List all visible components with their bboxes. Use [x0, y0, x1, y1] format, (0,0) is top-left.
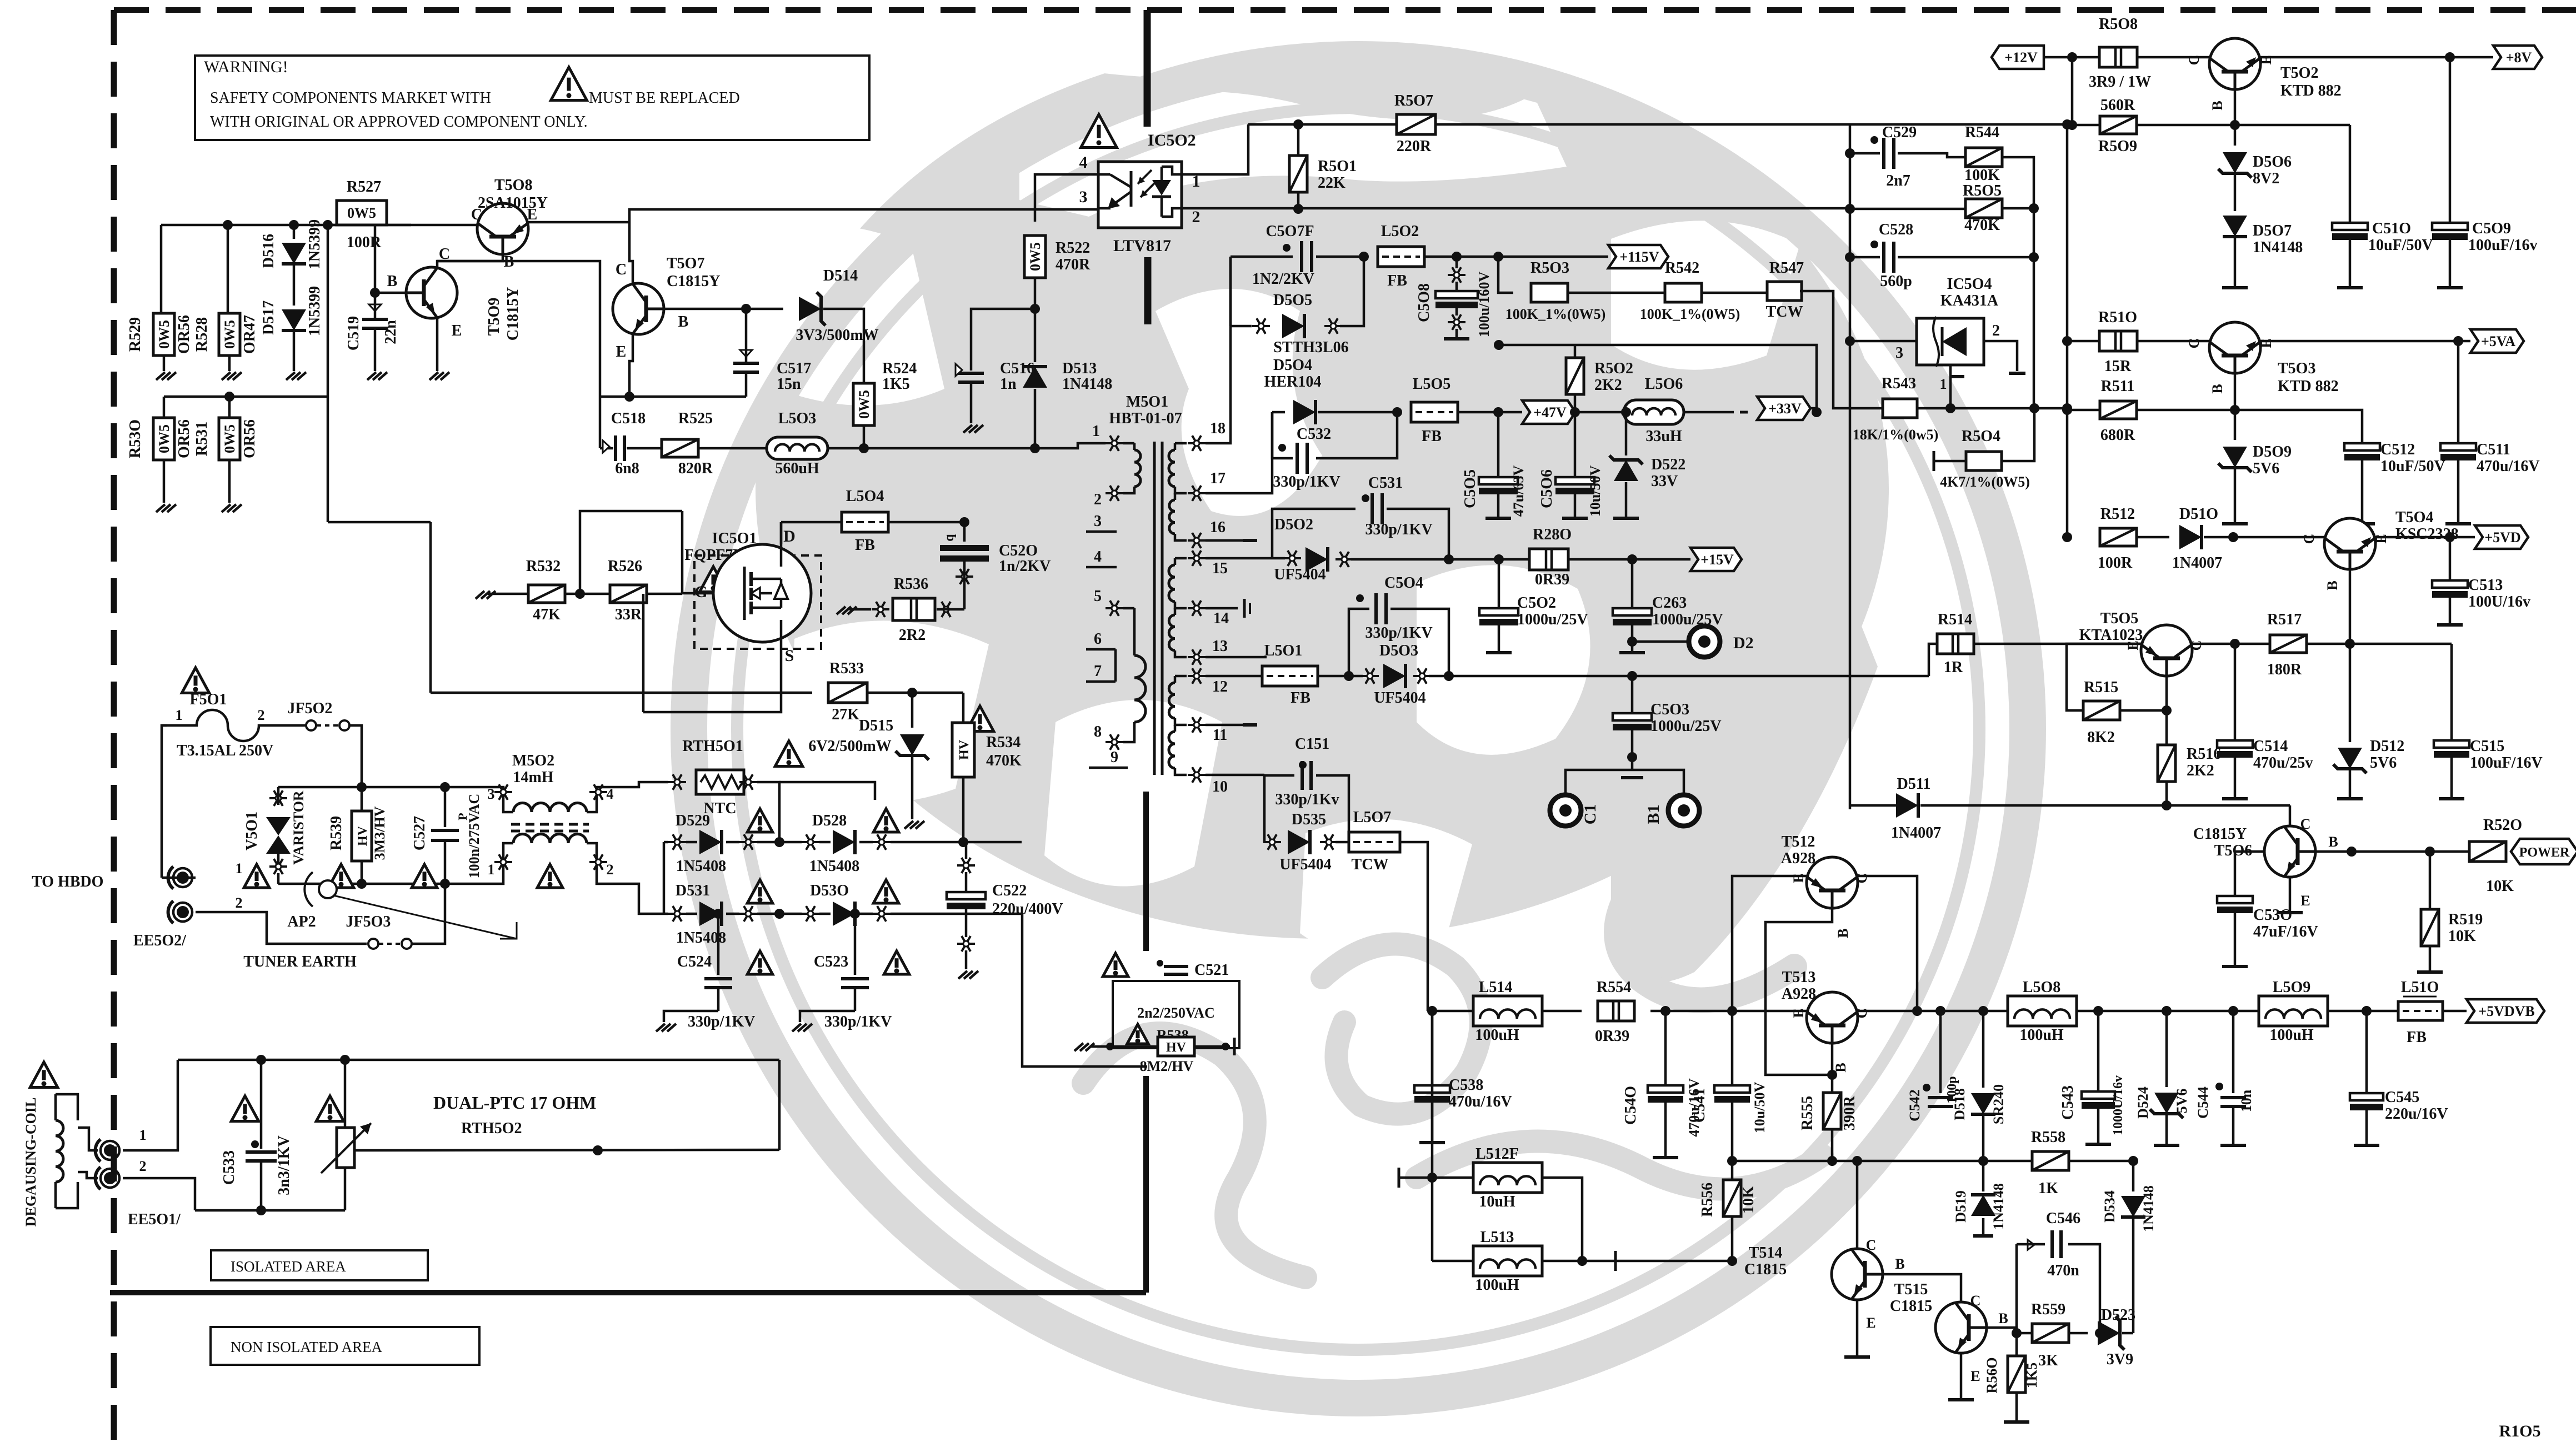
- wire T5O6 E: [2289, 877, 2292, 911]
- svg-text:D5O6: D5O6: [2253, 153, 2292, 171]
- svg-text:100K_1%(0W5): 100K_1%(0W5): [1505, 306, 1606, 322]
- wire IC5O4 pin1: [1949, 365, 1952, 408]
- svg-text:C517: C517: [777, 360, 811, 377]
- svg-text:HV: HV: [957, 739, 972, 760]
- pin 14: [1188, 607, 1206, 609]
- svg-text:D531: D531: [676, 882, 710, 899]
- dashed border top: [114, 7, 2576, 13]
- primary winding 5-8: [1123, 607, 1134, 610]
- junction: [1452, 252, 1462, 262]
- junction: [370, 288, 380, 298]
- svg-text:L5O9: L5O9: [2273, 979, 2310, 996]
- svg-text:IC5O2: IC5O2: [1148, 131, 1196, 149]
- svg-text:330p/1Kv: 330p/1Kv: [1275, 791, 1339, 808]
- svg-text:SR240: SR240: [1990, 1084, 2007, 1124]
- svg-text:+8V: +8V: [2506, 49, 2532, 66]
- capacitor C54O: [1664, 1011, 1667, 1086]
- svg-text:6V2/500mW: 6V2/500mW: [808, 738, 891, 755]
- wire D514 right: [823, 309, 864, 385]
- svg-text:R5O5: R5O5: [1963, 182, 2002, 199]
- capacitor C545: [2365, 1011, 2368, 1094]
- resistor 560R R5O9: [2100, 116, 2137, 134]
- svg-text:C1815Y: C1815Y: [667, 273, 720, 290]
- secondary winding 15-14: [1175, 557, 1187, 560]
- svg-text:10uH: 10uH: [1479, 1193, 1515, 1210]
- junction: [2425, 847, 2435, 857]
- svg-text:390R: 390R: [1841, 1095, 1858, 1130]
- wire R5O3 branch: [1498, 257, 1513, 293]
- svg-text:1: 1: [176, 707, 183, 723]
- wire L512F leads: [1398, 1168, 1400, 1188]
- connector B1: [1668, 795, 1699, 826]
- svg-text:JF5O3: JF5O3: [346, 913, 391, 930]
- svg-text:EE5O1/: EE5O1/: [128, 1211, 181, 1228]
- svg-text:5V6: 5V6: [2174, 1089, 2190, 1114]
- junction: [440, 782, 450, 792]
- svg-text:D529: D529: [676, 812, 710, 829]
- flag +5VDVB: [2467, 999, 2544, 1023]
- wire T5O5 E loop: [2067, 644, 2141, 710]
- wire D51O right: [2204, 536, 2324, 539]
- svg-text:180R: 180R: [2267, 661, 2302, 678]
- svg-text:C521: C521: [1194, 962, 1229, 979]
- wire R529 gnd lead: [163, 356, 166, 371]
- wire input bottom rail: [278, 883, 497, 885]
- capacitor C519: [362, 318, 388, 321]
- svg-text:100R: 100R: [2098, 554, 2133, 572]
- diode D519: [1982, 1161, 1985, 1191]
- junction: [1812, 407, 1822, 417]
- svg-text:L5O3: L5O3: [778, 410, 816, 427]
- wire T5O3 E rail: [2260, 340, 2470, 343]
- svg-text:22n: 22n: [382, 320, 399, 344]
- svg-text:3: 3: [1079, 188, 1088, 206]
- junction: [1493, 252, 1503, 262]
- wire gnd-R532: [488, 593, 528, 595]
- svg-text:HV: HV: [356, 825, 370, 846]
- warning note box: [195, 56, 869, 140]
- junction: [357, 879, 367, 889]
- capacitor C513: [2449, 537, 2452, 581]
- resistor R56O: [2015, 1333, 2018, 1356]
- svg-text:220u/400V: 220u/400V: [992, 900, 1063, 918]
- wire +47V to R5O2: [1575, 412, 1654, 413]
- svg-text:L5O7: L5O7: [1353, 809, 1391, 826]
- svg-text:C543: C543: [2059, 1085, 2077, 1120]
- primary winding 1-2: [1123, 442, 1134, 445]
- svg-text:C5O7F: C5O7F: [1266, 223, 1314, 240]
- svg-text:C54O: C54O: [1622, 1086, 1639, 1125]
- svg-text:0W5: 0W5: [156, 424, 172, 453]
- wire C519 top: [374, 225, 377, 319]
- wire L513 leads: [1432, 1260, 1473, 1263]
- svg-text:R536: R536: [894, 575, 928, 593]
- svg-text:T5O5: T5O5: [2100, 610, 2138, 627]
- wire R544 right: [2002, 157, 2034, 408]
- svg-text:C512: C512: [2380, 441, 2415, 458]
- inductor L51O FB: [2398, 1002, 2443, 1020]
- svg-text:10: 10: [1212, 778, 1228, 795]
- svg-text:14: 14: [1213, 610, 1229, 627]
- svg-text:R534: R534: [986, 734, 1021, 751]
- solder point: [739, 781, 757, 783]
- svg-text:D5O3: D5O3: [1379, 642, 1418, 659]
- wire 5V rail: [1428, 1010, 1473, 1013]
- capacitor C528: [1870, 241, 1878, 248]
- svg-text:T3.15AL 250V: T3.15AL 250V: [177, 742, 273, 759]
- wire D518 col: [1982, 1011, 1985, 1088]
- warning triangle: [1081, 114, 1117, 148]
- svg-text:C544: C544: [2195, 1086, 2211, 1119]
- svg-text:1: 1: [139, 1127, 147, 1143]
- svg-text:D512: D512: [2370, 738, 2404, 755]
- svg-text:B: B: [1998, 1310, 2008, 1326]
- svg-text:2: 2: [258, 707, 265, 723]
- diode D531: [668, 913, 686, 915]
- svg-text:1N2/2KV: 1N2/2KV: [1252, 271, 1314, 288]
- wire standby rail: [161, 224, 478, 227]
- flag +115V: [1608, 245, 1668, 268]
- wire C516 gnd: [970, 382, 973, 423]
- svg-text:C532: C532: [1297, 425, 1331, 443]
- wire C546 left col: [2015, 1244, 2018, 1333]
- svg-text:A928: A928: [1782, 985, 1816, 1003]
- svg-text:2n2/250VAC: 2n2/250VAC: [1137, 1005, 1215, 1021]
- safety cap box: [1113, 981, 1239, 1048]
- junction: [1945, 403, 1955, 413]
- junction: [1494, 554, 1504, 564]
- warning triangle: [873, 880, 899, 903]
- svg-text:470u/16V: 470u/16V: [1449, 1093, 1512, 1110]
- junction: [593, 1145, 603, 1155]
- wire T5O9 C up: [437, 261, 600, 397]
- wire jack1: [162, 877, 196, 879]
- warning triangle: [966, 706, 993, 732]
- svg-text:L514: L514: [1479, 979, 1513, 996]
- svg-text:1K5: 1K5: [2024, 1363, 2040, 1388]
- wire R28O left: [1449, 558, 1529, 561]
- pin 7 stub: [1086, 680, 1116, 683]
- svg-text:+47V: +47V: [1533, 404, 1567, 420]
- wire R5O4 branch: [2002, 408, 2034, 461]
- wire IC5O4 pin3: [1850, 340, 1917, 343]
- svg-text:100uH: 100uH: [2269, 1027, 2314, 1044]
- svg-text:R514: R514: [1938, 611, 1972, 628]
- inductor L5O3: [767, 437, 828, 459]
- junction: [256, 1205, 266, 1215]
- svg-text:8K2: 8K2: [2087, 729, 2115, 746]
- wire C519 gnd: [374, 328, 377, 371]
- svg-text:1n: 1n: [1000, 375, 1017, 393]
- svg-text:330p/1KV: 330p/1KV: [824, 1013, 892, 1030]
- svg-text:C: C: [616, 261, 627, 278]
- svg-text:C5O6: C5O6: [1538, 469, 1555, 508]
- wire 47V-L5O6: [1575, 411, 1624, 414]
- svg-text:1N4148: 1N4148: [1990, 1183, 2007, 1230]
- svg-text:560p: 560p: [1880, 273, 1912, 290]
- resistor R555: [1823, 1093, 1841, 1129]
- pin4 label: [589, 791, 607, 793]
- svg-text:JF5O2: JF5O2: [288, 700, 333, 717]
- svg-text:8M2/HV: 8M2/HV: [1140, 1058, 1194, 1074]
- svg-text:D534: D534: [2102, 1190, 2118, 1223]
- svg-text:R556: R556: [1699, 1183, 1716, 1217]
- switch arrow: [333, 895, 517, 939]
- wire junction down: [580, 511, 682, 594]
- wire D515 gnd: [911, 757, 914, 819]
- svg-text:10u/50V: 10u/50V: [1752, 1082, 1768, 1134]
- wire T5O7 E down: [629, 334, 633, 397]
- resistor R53O: [153, 418, 174, 460]
- resistor R5O2: [1566, 358, 1584, 394]
- resistor R28O: [1529, 549, 1568, 570]
- svg-text:R5O4: R5O4: [1962, 428, 2000, 445]
- warning triangle: [328, 864, 354, 888]
- diode D53O: [802, 913, 819, 915]
- wire R51O-T5O3: [2137, 340, 2209, 343]
- svg-text:1000u/25V: 1000u/25V: [1517, 611, 1588, 628]
- junction: [1570, 407, 1580, 417]
- wire bridge minus rail: [1022, 914, 1147, 1067]
- inductor L5O6: [1624, 400, 1684, 424]
- svg-text:47uF/16V: 47uF/16V: [2253, 923, 2318, 940]
- svg-text:OR56: OR56: [241, 419, 258, 458]
- junction: [223, 220, 233, 230]
- solder point: [956, 575, 973, 578]
- wire M5O2 pin2 to bridge: [609, 884, 664, 914]
- wire T5O7 B right: [664, 308, 783, 311]
- svg-text:V5O1: V5O1: [243, 812, 261, 850]
- capacitor C263: [1631, 559, 1634, 609]
- dashed border left: [111, 10, 117, 1442]
- capacitor C541: [1731, 1011, 1734, 1086]
- svg-text:T514: T514: [1749, 1244, 1783, 1261]
- svg-text:47K: 47K: [533, 606, 561, 623]
- zener D522: [1625, 412, 1628, 455]
- pin 16: [1188, 539, 1206, 542]
- svg-text:RTH5O2: RTH5O2: [461, 1120, 522, 1137]
- wire R5O2 top: [1499, 345, 1817, 412]
- diode D5O5: [1229, 257, 1232, 326]
- svg-text:3R9 / 1W: 3R9 / 1W: [2089, 73, 2151, 91]
- wire T5O4 E rail: [2375, 536, 2475, 539]
- svg-text:2: 2: [139, 1158, 147, 1174]
- warning triangle in note: [551, 67, 587, 101]
- junction: [2062, 405, 2072, 415]
- svg-text:L5O4: L5O4: [846, 488, 884, 505]
- svg-text:R5O3: R5O3: [1530, 259, 1569, 277]
- svg-text:C151: C151: [1295, 735, 1329, 753]
- decorative watermark: [689, 0, 2028, 1398]
- junction: [1660, 1006, 1670, 1016]
- svg-text:100K_1%(0W5): 100K_1%(0W5): [1640, 306, 1740, 322]
- svg-text:T513: T513: [1782, 969, 1816, 986]
- svg-text:C5O2: C5O2: [1517, 594, 1556, 612]
- wire left rail1: [160, 225, 163, 316]
- wire R5O1 bottom: [1297, 192, 1300, 209]
- junction: [1392, 407, 1402, 417]
- wire pin16 stub: [1206, 539, 1246, 542]
- svg-text:2: 2: [236, 895, 243, 911]
- capacitor C542: [1939, 1011, 1942, 1093]
- junction: [2029, 203, 2039, 213]
- wire R536 right: [937, 608, 964, 611]
- svg-text:10K: 10K: [1740, 1186, 1757, 1214]
- svg-text:100uH: 100uH: [1475, 1027, 1519, 1044]
- svg-text:0W5: 0W5: [222, 320, 238, 349]
- capacitor C533: [260, 1060, 263, 1149]
- capacitor C5O3: [1631, 676, 1634, 714]
- svg-text:IC5O4: IC5O4: [1947, 276, 1992, 293]
- junction: [958, 837, 968, 847]
- svg-text:FB: FB: [855, 537, 875, 554]
- svg-text:D523: D523: [2101, 1306, 2135, 1324]
- svg-text:L51O: L51O: [2401, 979, 2439, 996]
- resistor R524: [853, 383, 874, 425]
- pin 9 stub: [1089, 767, 1128, 769]
- svg-text:470K: 470K: [1964, 217, 2000, 234]
- transistor T5O6: [2289, 805, 2292, 826]
- svg-text:100u/160V: 100u/160V: [1476, 272, 1492, 338]
- capacitor C516: [958, 372, 984, 375]
- junction: [2362, 1006, 2372, 1016]
- svg-text:3V3/500mW: 3V3/500mW: [796, 327, 878, 344]
- junction: [1627, 752, 1637, 762]
- svg-text:E: E: [1790, 1008, 1807, 1018]
- svg-text:100U/16v: 100U/16v: [2468, 593, 2530, 610]
- svg-text:C: C: [2186, 55, 2202, 66]
- pin 10: [1188, 774, 1206, 776]
- svg-text:D: D: [783, 527, 796, 545]
- jack EE5O1 2: [96, 1167, 101, 1189]
- resistor R559: [2017, 1332, 2032, 1335]
- junction: [1030, 304, 1040, 314]
- svg-text:B: B: [2209, 384, 2225, 393]
- capacitor C51O: [2349, 125, 2352, 223]
- svg-text:C538: C538: [1449, 1077, 1483, 1094]
- flag +12V: [1992, 46, 2044, 69]
- pin 12: [1188, 675, 1206, 677]
- solder point: [872, 608, 889, 610]
- svg-text:D5O5: D5O5: [1273, 292, 1312, 309]
- svg-text:TCW: TCW: [1352, 856, 1389, 873]
- zener D515: [911, 693, 914, 728]
- wire pin11 stub: [1206, 724, 1246, 727]
- wire R5O5 left: [1850, 208, 1965, 211]
- svg-text:1N4148: 1N4148: [2253, 239, 2303, 256]
- secondary winding 14-13: [1169, 615, 1175, 650]
- svg-text:4: 4: [607, 786, 614, 802]
- svg-text:T5O9: T5O9: [486, 298, 503, 336]
- ground: [833, 606, 856, 607]
- inductor L5O4 FB: [842, 512, 888, 532]
- svg-text:11: 11: [1213, 727, 1227, 744]
- wire base riser: [2071, 57, 2074, 125]
- svg-text:OR56: OR56: [176, 315, 193, 354]
- svg-text:B: B: [1895, 1256, 1904, 1272]
- svg-text:C511: C511: [2477, 441, 2510, 458]
- pin 2: [1106, 492, 1123, 494]
- svg-text:47u/63V: 47u/63V: [1510, 465, 1527, 517]
- wire R556 bottom: [1731, 1216, 1734, 1261]
- svg-text:C1: C1: [1581, 804, 1599, 825]
- resistor HV R538: [1158, 1037, 1194, 1056]
- svg-text:1000u/25V: 1000u/25V: [1650, 718, 1722, 735]
- wire +12V rail: [2044, 56, 2209, 59]
- resistor R5O8: [2099, 47, 2137, 67]
- svg-text:A928: A928: [1781, 850, 1815, 867]
- svg-text:T512: T512: [1782, 833, 1815, 850]
- svg-text:2SA1015Y: 2SA1015Y: [478, 194, 548, 212]
- svg-text:C527: C527: [411, 816, 428, 850]
- svg-text:22K: 22K: [1318, 174, 1345, 192]
- wire row2 rail: [164, 395, 328, 398]
- ground: [901, 820, 923, 822]
- svg-text:12: 12: [1212, 678, 1228, 695]
- svg-text:3M3/HV: 3M3/HV: [372, 806, 388, 860]
- svg-text:WITH ORIGINAL OR APPROVED COMP: WITH ORIGINAL OR APPROVED COMPONENT ONLY…: [210, 113, 588, 131]
- wire R5O1 top: [1297, 124, 1300, 156]
- diode D528: [802, 841, 819, 843]
- svg-text:17: 17: [1210, 470, 1226, 487]
- svg-text:D513: D513: [1062, 360, 1097, 377]
- svg-text:3K: 3K: [2038, 1352, 2058, 1369]
- svg-text:R533: R533: [829, 660, 864, 677]
- svg-text:D5O2: D5O2: [1274, 516, 1313, 533]
- svg-text:KA431A: KA431A: [1940, 292, 1999, 309]
- junction: [1293, 204, 1303, 214]
- svg-text:C5O3: C5O3: [1650, 701, 1689, 718]
- ground: [153, 504, 175, 505]
- flag +33V: [1757, 397, 1810, 420]
- capacitor C543: [2097, 1011, 2100, 1092]
- wire R5O4 left: [1934, 460, 1965, 463]
- svg-text:E: E: [2300, 893, 2310, 909]
- wire T514 E: [1856, 1300, 1859, 1355]
- wire gate left: [682, 511, 713, 593]
- junction: [713, 909, 723, 919]
- svg-text:7: 7: [1094, 663, 1102, 680]
- diode D514 zener 3V3: [799, 297, 821, 321]
- ground: [283, 372, 305, 373]
- svg-text:5V6: 5V6: [2253, 460, 2279, 477]
- junction: [2029, 403, 2039, 413]
- wire R512-D51O: [2137, 536, 2169, 539]
- wire D517 gnd lead: [293, 332, 296, 371]
- wire R517 right: [2307, 643, 2452, 645]
- svg-text:T5O7: T5O7: [667, 255, 704, 272]
- svg-text:2R2: 2R2: [899, 627, 926, 644]
- junction: [1577, 1256, 1587, 1266]
- svg-text:4K7/1%(0W5): 4K7/1%(0W5): [1940, 474, 2030, 490]
- wire C5O6 col: [1574, 412, 1577, 478]
- svg-text:R525: R525: [678, 410, 713, 427]
- jack TO HBDO 2: [168, 901, 173, 923]
- isolation barrier horizontal line: [110, 1290, 1146, 1295]
- svg-text:FB: FB: [1387, 272, 1407, 289]
- svg-text:KTD 882: KTD 882: [2278, 378, 2339, 395]
- resistor R542: [1665, 283, 1702, 302]
- svg-text:10K: 10K: [2448, 928, 2476, 945]
- transistor T513: [1807, 992, 1858, 1043]
- pin 6 stub: [1086, 648, 1116, 651]
- resistor R543: [1883, 399, 1917, 418]
- capacitor C53O: [2235, 850, 2264, 853]
- svg-text:B: B: [2328, 834, 2338, 850]
- svg-text:16: 16: [1210, 519, 1226, 536]
- wire jack2: [196, 912, 367, 944]
- svg-text:C523: C523: [814, 953, 848, 970]
